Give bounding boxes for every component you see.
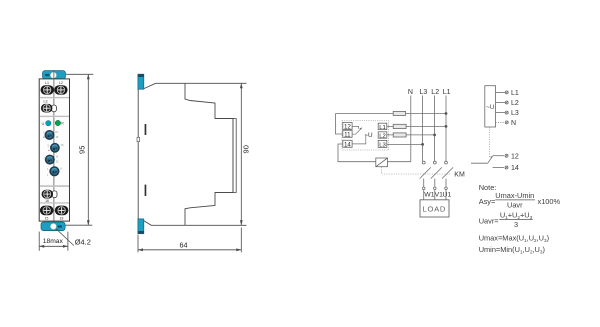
svg-text:L1: L1: [443, 89, 451, 96]
svg-text:U1+U2+U3: U1+U2+U3: [500, 210, 533, 220]
svg-text:14: 14: [511, 165, 519, 172]
svg-text:Uavr: Uavr: [507, 201, 523, 210]
svg-text:Uavr=: Uavr=: [479, 216, 499, 225]
svg-text:L3: L3: [44, 99, 48, 103]
svg-text:L2: L2: [511, 100, 519, 107]
svg-text:L3: L3: [420, 89, 428, 96]
svg-text:18max: 18max: [43, 238, 64, 245]
svg-text:L3: L3: [379, 143, 386, 149]
svg-text:64: 64: [180, 240, 188, 249]
svg-text:90: 90: [242, 145, 251, 153]
svg-text:W1: W1: [424, 191, 434, 198]
svg-text:~U: ~U: [364, 132, 373, 139]
svg-text:Umin=Min(U1,U2,U3): Umin=Min(U1,U2,U3): [479, 245, 545, 255]
svg-text:Umax-Umin: Umax-Umin: [495, 191, 534, 200]
svg-text:11: 11: [344, 132, 351, 139]
svg-text:L1: L1: [379, 125, 386, 131]
svg-text:12: 12: [344, 124, 351, 131]
svg-text:95: 95: [77, 146, 86, 154]
svg-text:L1: L1: [45, 81, 49, 85]
svg-text:N: N: [511, 120, 516, 127]
svg-text:L1: L1: [511, 90, 519, 97]
svg-text:12: 12: [511, 153, 519, 160]
svg-text:3: 3: [514, 220, 518, 229]
svg-text:N: N: [408, 89, 413, 96]
svg-text:x100%: x100%: [538, 197, 561, 206]
svg-text:~U: ~U: [486, 104, 495, 111]
svg-text:14: 14: [344, 142, 351, 149]
svg-text:18: 18: [60, 216, 64, 220]
svg-text:L2: L2: [431, 89, 439, 96]
svg-text:Umax=Max(U1,U2,U3): Umax=Max(U1,U2,U3): [479, 234, 549, 244]
svg-text:LOAD: LOAD: [423, 204, 446, 213]
svg-text:Asy=: Asy=: [479, 197, 496, 206]
svg-text:Note:: Note:: [479, 183, 497, 192]
svg-text:16: 16: [45, 199, 49, 203]
svg-text:U1: U1: [443, 191, 452, 198]
svg-text:15: 15: [45, 216, 49, 220]
svg-text:L2: L2: [379, 133, 386, 139]
svg-text:KM: KM: [454, 171, 465, 178]
svg-text:L3: L3: [511, 110, 519, 117]
svg-text:Ø4.2: Ø4.2: [75, 238, 91, 247]
svg-text:L2: L2: [59, 81, 63, 85]
